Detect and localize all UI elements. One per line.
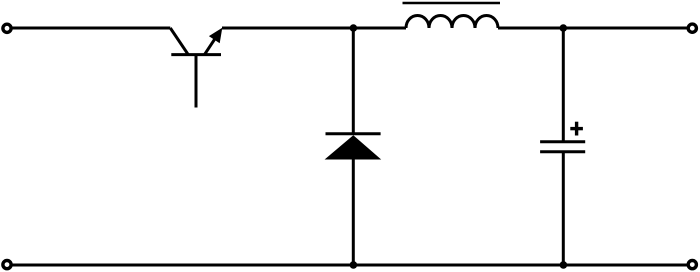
- capacitor C1 (polarized): [540, 142, 585, 152]
- node: capacitor / top rail junction: [560, 24, 568, 32]
- label: capacitor + polarity mark: [570, 122, 583, 136]
- node: diode / top rail junction: [350, 24, 358, 32]
- terminal: input bottom-left: [3, 261, 11, 269]
- wire: top rail, input terminal to transistor emitter: [11, 27, 170, 30]
- wire: top rail, diode node to inductor: [353, 27, 406, 30]
- terminal: output bottom-right: [688, 261, 696, 269]
- wire: top rail, capacitor node to output terminal: [563, 27, 688, 30]
- wire: top rail, transistor collector to diode node: [222, 27, 354, 30]
- terminal: output top-right: [688, 24, 696, 32]
- terminal: input top-left: [3, 24, 11, 32]
- inductor L1: [403, 3, 501, 28]
- wire: diode anode lead (triangle base down to bottom rail): [352, 158, 355, 265]
- transistor Q1: [170, 28, 222, 108]
- wire: diode cathode lead (top node down to diode bar): [352, 28, 355, 135]
- wire: top rail, inductor to capacitor node: [498, 27, 563, 30]
- node: diode / bottom rail junction: [350, 261, 358, 269]
- wire: capacitor bottom lead: [562, 152, 565, 265]
- node: capacitor / bottom rail junction: [560, 261, 568, 269]
- wire: bottom rail: [11, 264, 688, 267]
- wire: capacitor top lead: [562, 28, 565, 142]
- diode D1: [325, 134, 382, 160]
